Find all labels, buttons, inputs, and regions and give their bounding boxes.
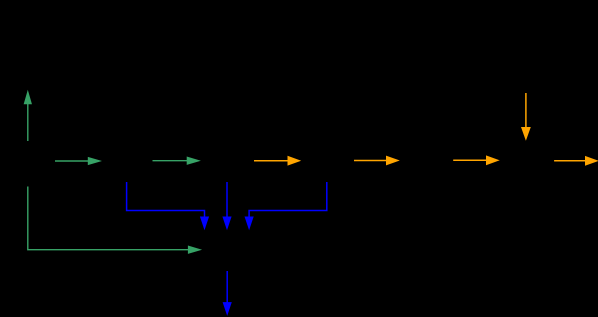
- wire: orange arrow node4 to node5: [354, 156, 398, 164]
- wire: green elbow arrow from node1 down to bottom middle node: [28, 187, 201, 254]
- wire: blue straight arrow from node3 down to middle node: [223, 182, 231, 229]
- wire: blue elbow arrow from node4 down to middle node: [245, 182, 327, 229]
- wire: green arrow node1 to node2: [55, 158, 100, 165]
- wire: blue elbow arrow from node2 down to middle node: [127, 182, 209, 229]
- wire: green up arrow from node1 to top node: [24, 92, 31, 141]
- wire: green arrow node2 to node3: [153, 157, 200, 164]
- wire: orange arrow node6 off right edge: [554, 157, 597, 165]
- wire: blue down arrow leaving middle node off bottom: [223, 271, 231, 314]
- wire: orange arrow node3 to node4: [254, 157, 300, 165]
- wire: orange down arrow from top right node to node6: [522, 93, 530, 139]
- wire: orange arrow node5 to node6: [453, 156, 498, 164]
